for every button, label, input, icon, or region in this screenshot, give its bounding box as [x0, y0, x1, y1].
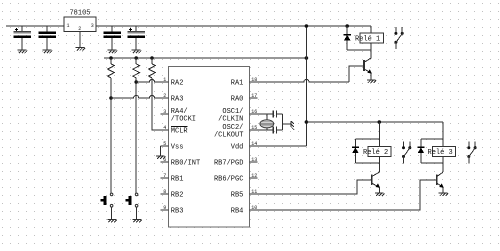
- transistor Q3: [437, 171, 448, 196]
- node R2-RA2: [134, 80, 138, 84]
- svg-text:RB1: RB1: [171, 176, 184, 184]
- node R1-RA3: [109, 96, 113, 100]
- svg-text:RB7/PGD: RB7/PGD: [214, 160, 243, 168]
- wire coil2 to Q2: [378, 157, 380, 171]
- wire D2 to coil: [355, 162, 379, 164]
- svg-text:/CLKIN: /CLKIN: [218, 116, 243, 124]
- node rail-vert: [305, 24, 309, 28]
- resistor R2: [133, 58, 140, 78]
- svg-text:9: 9: [163, 205, 166, 211]
- wire D3 top bar: [421, 138, 443, 140]
- wire supply to relay3: [442, 122, 444, 146]
- switch S2: [135, 193, 138, 196]
- relay K3 coil: [432, 146, 455, 156]
- pin 8 stub: [160, 193, 168, 195]
- pin 13 stub: [250, 161, 258, 163]
- ground C3: [108, 50, 117, 53]
- wire coil1 to Q1: [370, 43, 372, 57]
- wire S2 to ground: [136, 207, 138, 219]
- regulator U1 78L05 box: [64, 17, 96, 32]
- svg-text:2: 2: [163, 93, 166, 99]
- pin 1 stub: [160, 81, 168, 83]
- svg-text:78105: 78105: [69, 10, 90, 18]
- node supply-relay2: [378, 120, 382, 124]
- resistor R1: [108, 58, 115, 78]
- svg-text:1: 1: [67, 23, 70, 29]
- svg-text:Relé 2: Relé 2: [363, 149, 388, 157]
- pin 12 stub: [250, 177, 258, 179]
- wire R2 to button S2: [135, 78, 137, 193]
- wire OSC2: [250, 129, 274, 131]
- svg-text:/TOCKI: /TOCKI: [171, 116, 196, 124]
- svg-text:5: 5: [163, 141, 166, 147]
- wire Vin rail: [6, 25, 64, 27]
- wire Vss down: [159, 146, 161, 155]
- capacitor C5: [272, 111, 274, 118]
- svg-text:3: 3: [163, 109, 166, 115]
- wire crystal ground tap: [283, 123, 292, 125]
- node rail-Vdd: [305, 56, 309, 60]
- wire RA2: [136, 79, 168, 82]
- transistor Q2: [372, 171, 385, 196]
- wire supply to relay2: [378, 122, 380, 146]
- ground C1: [18, 50, 27, 53]
- pin 5 stub: [160, 145, 168, 147]
- contacts K2: [402, 141, 411, 163]
- switch S1: [110, 193, 113, 196]
- pin 4 stub: [160, 129, 168, 131]
- wire R1 to button S1: [110, 78, 112, 193]
- op-amp U2 PIC box: [169, 67, 250, 227]
- svg-text:Vdd: Vdd: [231, 144, 244, 152]
- svg-text:/CLKOUT: /CLKOUT: [214, 132, 243, 140]
- wire OSC1: [250, 113, 274, 115]
- ground S2: [132, 219, 141, 222]
- contacts K3: [467, 141, 476, 163]
- svg-text:1: 1: [163, 77, 166, 83]
- node rail-R2: [134, 56, 138, 60]
- capacitor C3 (output): [103, 26, 121, 50]
- pin 6 stub: [160, 161, 168, 163]
- contacts K1: [394, 27, 403, 49]
- diode D2: [352, 139, 359, 163]
- svg-text:4: 4: [163, 125, 166, 131]
- ground U1: [76, 48, 85, 51]
- transistor Q1: [364, 57, 376, 83]
- wire D3 to coil: [421, 162, 443, 164]
- capacitor C2 (input): [38, 26, 56, 50]
- svg-text:RB4: RB4: [231, 208, 244, 216]
- svg-text:13: 13: [251, 157, 257, 163]
- svg-text:Relé 1: Relé 1: [355, 35, 380, 43]
- wire relay supply: [306, 121, 443, 123]
- node vert-relay supply: [305, 120, 309, 124]
- node rail-R3: [150, 56, 154, 60]
- pin 10 stub: [250, 209, 258, 211]
- svg-text:RB5: RB5: [231, 192, 244, 200]
- resistor R3: [149, 58, 156, 78]
- pin 17 stub: [250, 97, 258, 99]
- svg-text:2: 2: [78, 26, 81, 32]
- pin 2 stub: [160, 97, 168, 99]
- relay K2 coil: [368, 146, 391, 156]
- ground Vss: [156, 156, 165, 159]
- pin 11 stub: [250, 193, 258, 195]
- wire D2 top bar: [355, 138, 379, 140]
- svg-text:RA3: RA3: [171, 96, 184, 104]
- ground C2: [43, 50, 52, 53]
- svg-text:7: 7: [163, 173, 166, 179]
- svg-text:8: 8: [163, 189, 166, 195]
- wire S1 to ground: [111, 207, 113, 219]
- pin 3 stub: [160, 113, 168, 115]
- svg-text:Vss: Vss: [171, 144, 184, 152]
- svg-text:Relé 3: Relé 3: [428, 149, 453, 157]
- wire R3 to MCLR: [152, 78, 169, 130]
- capacitor C6: [272, 127, 274, 134]
- svg-text:RB2: RB2: [171, 192, 184, 200]
- diode D1: [344, 26, 351, 50]
- wire RA1 to Q1 base: [250, 79, 349, 82]
- svg-text:MCLR: MCLR: [171, 128, 189, 136]
- crystal X1: [266, 114, 268, 120]
- wire RA3: [111, 95, 169, 98]
- wire U1 pin2 to ground: [79, 32, 81, 48]
- relay K1 coil: [360, 33, 383, 43]
- pin 15 stub: [250, 129, 258, 131]
- ground S1: [107, 219, 116, 222]
- svg-text:RB6/PGC: RB6/PGC: [214, 176, 243, 184]
- capacitor C4 (polarized output): [127, 26, 145, 50]
- wire D1 to coil: [347, 49, 371, 51]
- svg-text:RA0: RA0: [231, 96, 244, 104]
- wire RB5 to Q2 base: [250, 180, 372, 194]
- diode D3: [417, 139, 424, 163]
- pin 7 stub: [160, 177, 168, 179]
- pin 14 stub: [250, 145, 258, 147]
- svg-text:RA1: RA1: [231, 80, 244, 88]
- pin 18 stub: [250, 81, 258, 83]
- wire coil3 to Q3: [442, 157, 444, 171]
- pin 16 stub: [250, 113, 258, 115]
- svg-text:12: 12: [251, 173, 257, 179]
- wire Vdd vertical: [305, 26, 307, 146]
- svg-text:RB0/INT: RB0/INT: [171, 160, 200, 168]
- wire RB4 to Q3 base: [250, 180, 437, 210]
- wire pull-up rail: [104, 57, 306, 59]
- wire +5V rail: [96, 25, 371, 27]
- svg-text:RA2: RA2: [171, 80, 184, 88]
- pin 9 stub: [160, 209, 168, 211]
- svg-text:3: 3: [91, 23, 94, 29]
- svg-text:RB3: RB3: [171, 208, 184, 216]
- wire rail to relay1: [370, 26, 372, 33]
- wire Vdd to pin14: [250, 145, 307, 147]
- capacitor C1 (polarized input): [13, 26, 31, 50]
- ground C4: [132, 50, 141, 53]
- node rail-R1: [109, 56, 113, 60]
- wire OSC loop: [282, 114, 284, 130]
- node rail-D1: [345, 24, 349, 28]
- ground crystal: [291, 121, 294, 130]
- svg-text:17: 17: [251, 93, 257, 99]
